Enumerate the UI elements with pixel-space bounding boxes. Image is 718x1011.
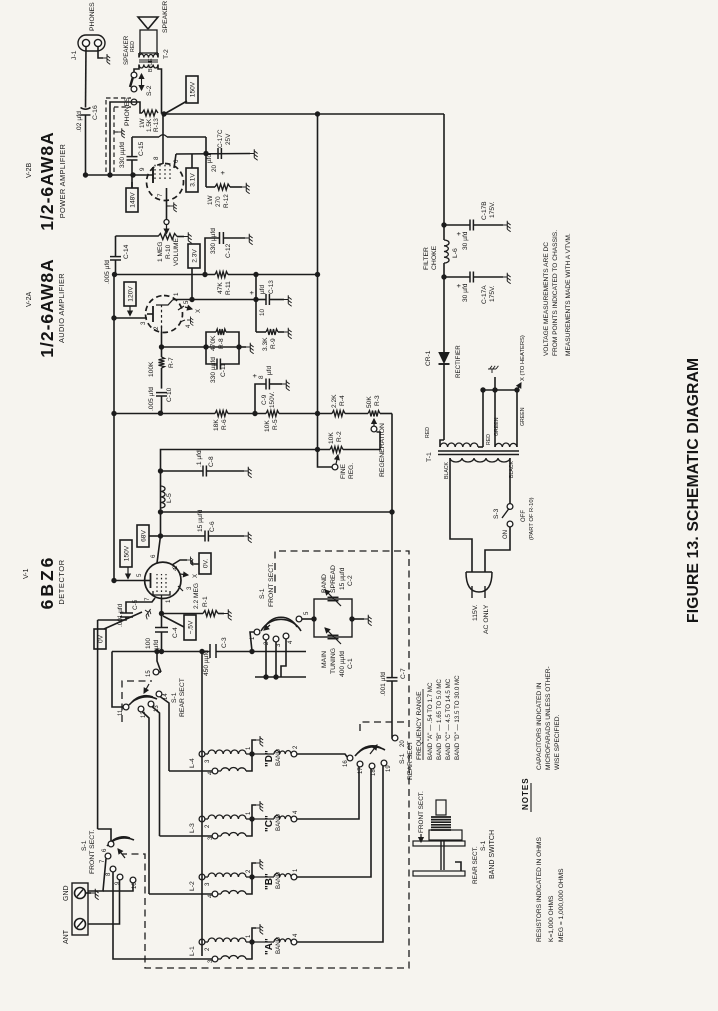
transformer T-1 core: [426, 451, 519, 462]
svg-text:R-8: R-8: [218, 338, 225, 349]
label 148V box: [126, 182, 138, 212]
wire plate feed line: [113, 275, 115, 584]
svg-text:1/2-6AW8A: 1/2-6AW8A: [37, 258, 57, 357]
switch S-1 front2 wafer: [81, 829, 134, 874]
tube V-2B grid lead to wiper: [157, 188, 169, 225]
svg-text:BAND: BAND: [275, 936, 282, 954]
svg-text:C-17A: C-17A: [481, 285, 488, 304]
node feed at R-6 chain: [111, 411, 116, 416]
svg-text:V-2A: V-2A: [26, 291, 33, 307]
wire contact1 to tank: [249, 632, 254, 654]
node C-9 node: [252, 411, 257, 416]
svg-text:115V.: 115V.: [472, 604, 479, 621]
label 150V box detector: [120, 540, 132, 579]
svg-text:C-6: C-6: [209, 521, 216, 532]
capacitor C-10 .005 ufd: [148, 387, 173, 411]
wire contacts feed lines: [255, 639, 306, 680]
tube V-2B screen lead: [153, 114, 163, 164]
wire plate feedback chain C-10 R-7: [161, 347, 163, 413]
switch S-1 rear section wafer: [129, 678, 186, 717]
switch S-1 front section wafer: [259, 562, 301, 631]
capacitor C-7 .001 ufd: [380, 668, 407, 736]
svg-text:17: 17: [358, 767, 364, 774]
svg-text:120V: 120V: [127, 286, 134, 302]
svg-text:BAND "A" — .54 TO 1.7 MC: BAND "A" — .54 TO 1.7 MC: [427, 682, 434, 760]
svg-text:R-10: R-10: [165, 244, 172, 259]
capacitor C-15 330 uufd: [119, 137, 145, 188]
svg-text:3.3K: 3.3K: [262, 337, 269, 351]
transformer T-1 secondary HV: [440, 440, 478, 447]
resistor R-2 10K: [328, 431, 343, 452]
svg-text:19: 19: [386, 765, 392, 772]
svg-text:+: +: [454, 231, 463, 236]
label V-2A header: [26, 258, 66, 357]
note NOTES heading: [521, 777, 531, 812]
wire heater leads: [483, 366, 520, 447]
capacitor C-4 100 uufd: [145, 614, 179, 654]
svg-text:47K: 47K: [217, 282, 224, 294]
potentiometer R-10 1 MEG VOLUME: [116, 225, 192, 266]
svg-text:1: 1: [173, 292, 180, 296]
svg-text:.005 µfd: .005 µfd: [148, 387, 155, 411]
node shielded lead tap: [107, 172, 112, 177]
node mid rail at R-2: [315, 447, 320, 452]
wire grid node to tube: [161, 332, 163, 348]
tube V-2A 1/2-6AW8A triode: [146, 296, 183, 333]
wire shielded lead S-2 to plate line: [110, 102, 137, 175]
svg-text:µfd: µfd: [259, 285, 266, 294]
svg-text:C-8: C-8: [208, 456, 215, 467]
svg-text:C-10: C-10: [166, 387, 173, 402]
svg-text:25V: 25V: [225, 133, 232, 145]
svg-text:400 µµfd: 400 µµfd: [339, 651, 346, 677]
svg-text:L-5: L-5: [166, 493, 173, 503]
svg-text:2.2 MEG: 2.2 MEG: [193, 583, 200, 609]
svg-text:18K: 18K: [213, 419, 220, 431]
svg-text:.001 µfd: .001 µfd: [380, 672, 387, 696]
tube V-2B 1/2-6AW8A: [147, 164, 184, 201]
label 2.3V box: [188, 244, 200, 302]
tube V-2A plate: [114, 306, 153, 325]
tube V-2A grid: [153, 305, 162, 332]
svg-text:C-17C: C-17C: [217, 129, 224, 148]
drawing band switch wafers: [413, 841, 465, 876]
node tank at feed bus: [199, 649, 204, 654]
wire J-1 tip line with C-16: [85, 47, 88, 174]
svg-text:REG.: REG.: [348, 463, 355, 479]
svg-text:"A": "A": [264, 938, 275, 955]
svg-text:3.1V: 3.1V: [189, 173, 196, 187]
node tank top: [159, 649, 164, 654]
svg-text:CHOKE: CHOKE: [431, 245, 438, 270]
svg-text:AC ONLY: AC ONLY: [483, 604, 490, 634]
svg-text:.005 µfd: .005 µfd: [104, 260, 111, 284]
svg-text:.1 µfd: .1 µfd: [196, 450, 203, 467]
capacitor C-5 .001 ufd: [114, 598, 155, 627]
wire grid leak branch: [162, 344, 247, 349]
wire grid feed to front contact 6: [98, 829, 111, 842]
svg-text:RED: RED: [486, 434, 492, 445]
svg-text:TUNING: TUNING: [330, 648, 337, 674]
resistor R-9 3.3K: [256, 300, 292, 352]
resistor R-3 50K regeneration: [366, 395, 381, 416]
wire cathode node line: [176, 151, 250, 156]
svg-text:L-1: L-1: [189, 946, 196, 956]
svg-text:0V: 0V: [97, 634, 104, 643]
svg-text:S-1: S-1: [171, 692, 178, 703]
svg-text:330 µµfd: 330 µµfd: [210, 228, 217, 254]
capacitor C-13 10 ufd: [247, 280, 292, 316]
svg-text:µfd: µfd: [266, 366, 273, 375]
wire ant to contact 9: [88, 880, 120, 924]
svg-text:BAND: BAND: [321, 574, 328, 593]
svg-text:L-2: L-2: [189, 881, 196, 891]
inductor L-6 filter choke: [423, 225, 459, 277]
svg-text:8: 8: [258, 375, 265, 379]
svg-text:REAR SECT: REAR SECT: [407, 741, 414, 780]
note voltage measurements: [543, 230, 572, 356]
svg-text:2: 2: [153, 326, 160, 330]
ground gang: [352, 615, 372, 626]
node bus at C-12: [202, 272, 207, 277]
svg-text:C-3: C-3: [221, 637, 228, 648]
tube V-2B cathode lead: [173, 154, 180, 168]
svg-text:1: 1: [165, 599, 172, 603]
svg-text:K=1,000 OHMS: K=1,000 OHMS: [548, 895, 555, 942]
svg-text:1W: 1W: [207, 194, 214, 205]
svg-text:"D": "D": [264, 750, 275, 767]
capacitor gang box: [311, 599, 354, 637]
resistor R-5 10K: [264, 411, 279, 433]
svg-text:C-14: C-14: [123, 244, 130, 259]
switch S-3 on-off: [493, 497, 535, 540]
svg-text:FIGURE 13. SCHEMATIC DIAGRAM: FIGURE 13. SCHEMATIC DIAGRAM: [685, 358, 702, 623]
note capacitors: [536, 666, 561, 770]
svg-text:OFF: OFF: [521, 510, 527, 522]
svg-text:BAND: BAND: [275, 748, 282, 766]
ground V-2B grid return: [167, 202, 177, 212]
svg-text:20: 20: [211, 164, 218, 172]
svg-text:FREQUENCY RANGE: FREQUENCY RANGE: [416, 691, 423, 760]
svg-text:MAIN: MAIN: [321, 651, 328, 668]
svg-text:−.5V: −.5V: [187, 620, 194, 634]
svg-text:1.5K: 1.5K: [146, 118, 153, 132]
svg-text:C-5: C-5: [132, 599, 139, 610]
svg-text:R-6: R-6: [221, 419, 228, 430]
svg-text:1/2-6AW8A: 1/2-6AW8A: [37, 131, 57, 230]
tube V-1 cathode: [144, 591, 172, 603]
wire C-13 node to bus: [253, 272, 258, 300]
wire V-1 plate lead: [111, 578, 144, 583]
capacitor C-2 band spread: [321, 565, 354, 606]
svg-text:VOLTAGE MEASUREMENTS ARE DC: VOLTAGE MEASUREMENTS ARE DC: [543, 242, 550, 356]
label V-2B header: [26, 131, 67, 230]
svg-text:C-4: C-4: [172, 627, 179, 638]
label FINE REG: [340, 463, 355, 479]
svg-text:BLACK: BLACK: [444, 461, 450, 479]
tube V-1 6BZ6: [145, 562, 181, 598]
resistor R-11 47K: [215, 272, 232, 296]
shield dashed around phones lead: [106, 98, 131, 172]
svg-text:15: 15: [146, 670, 152, 677]
svg-text:18: 18: [371, 769, 377, 776]
switch S-1 front contacts: [250, 611, 310, 647]
capacitor C-17A 30 ufd 175V: [444, 272, 511, 305]
svg-text:C-17B: C-17B: [481, 201, 488, 220]
coil L-5: [161, 486, 174, 508]
svg-text:C-9: C-9: [261, 394, 268, 405]
svg-text:MICROFARADS UNLESS OTHER-: MICROFARADS UNLESS OTHER-: [545, 666, 552, 770]
wire T-2 primary top to S-2: [134, 65, 139, 76]
svg-text:100: 100: [145, 638, 152, 649]
wire regen to rear wiper: [389, 414, 394, 678]
svg-text:10K: 10K: [328, 432, 335, 444]
svg-text:BAND "D" — 13.5 TO 30.0 MC: BAND "D" — 13.5 TO 30.0 MC: [454, 675, 461, 760]
svg-text:BAND: BAND: [275, 871, 282, 889]
resistor R-12 270 1W: [206, 154, 250, 209]
wire phones contact to R-13: [137, 102, 142, 113]
label -.5V box: [163, 615, 196, 640]
svg-text:R-11: R-11: [225, 281, 232, 295]
svg-text:175V.: 175V.: [489, 201, 496, 218]
node plate node: [158, 411, 163, 416]
svg-text:330 µµfd: 330 µµfd: [119, 142, 126, 168]
dashed enclosure tuner: [122, 551, 409, 968]
svg-text:C-1: C-1: [347, 658, 354, 669]
svg-text:3: 3: [140, 321, 147, 325]
node plate node C-15/148V: [130, 172, 135, 177]
svg-text:11: 11: [118, 709, 124, 716]
node C-6 68V junction: [158, 533, 163, 538]
svg-text:6: 6: [150, 554, 157, 558]
tube V-1 pin3 lead: [178, 586, 193, 591]
note resistors: [536, 836, 565, 942]
svg-text:S-2: S-2: [146, 85, 153, 96]
svg-text:R-12: R-12: [223, 194, 230, 208]
wire regen feedback line: [161, 511, 393, 513]
svg-text:REGENERATION: REGENERATION: [379, 423, 386, 477]
svg-text:FINE: FINE: [340, 463, 347, 479]
svg-text:C-16: C-16: [92, 105, 99, 120]
svg-text:BAND "C" — 4.5 TO 14.5 MC: BAND "C" — 4.5 TO 14.5 MC: [445, 678, 452, 760]
diode CR-1 rectifier: [425, 277, 462, 440]
label 0V box pin2: [192, 553, 211, 574]
svg-text:S-1: S-1: [81, 840, 88, 851]
node mid rail joins H1: [315, 111, 320, 116]
svg-text:FRONT SECT.: FRONT SECT.: [89, 829, 96, 874]
wire wiper5 to gang: [302, 618, 315, 620]
svg-text:GND: GND: [63, 885, 70, 901]
wire feed line 12: [142, 712, 149, 895]
note frequency range table: [416, 675, 461, 760]
tube V-2A heater pins: [178, 300, 202, 328]
resistor R-4 2.2K: [331, 394, 346, 417]
wire plate chain: [114, 413, 161, 415]
label band switch: [418, 791, 496, 884]
svg-text:L-4: L-4: [189, 758, 196, 768]
wire wiper15 line: [154, 649, 161, 672]
node choke right: [441, 222, 446, 227]
svg-text:2.2K: 2.2K: [331, 394, 338, 408]
svg-text:BAND SWITCH: BAND SWITCH: [489, 830, 496, 879]
svg-text:R-1: R-1: [202, 596, 209, 607]
label PHONES at S-2: [124, 97, 131, 126]
capacitor C-9 8 ufd 150V: [250, 366, 290, 414]
label 150V box: [166, 76, 198, 113]
node regen line junction: [158, 509, 163, 514]
svg-text:+: +: [247, 290, 256, 295]
title FIGURE 13. SCHEMATIC DIAGRAM: [685, 358, 702, 623]
svg-text:470K: 470K: [210, 335, 217, 351]
svg-text:1 MEG: 1 MEG: [157, 241, 164, 262]
capacitor C-12 330 uufd: [205, 228, 253, 275]
speaker SP: [138, 1, 169, 53]
svg-text:50K: 50K: [366, 396, 373, 408]
wire T-2 secondary to speaker: [139, 53, 158, 58]
wire C-15 top to cathode node: [132, 135, 206, 154]
wire decoupling bus: [115, 274, 318, 276]
wire V-2A cathode to C-13 node: [176, 299, 256, 301]
svg-text:6: 6: [173, 159, 180, 163]
capacitor C-6 15 uufd: [161, 509, 252, 542]
capacitor C-14 .005 ufd: [104, 236, 130, 284]
svg-text:+: +: [218, 170, 227, 175]
svg-text:SPEAKER: SPEAKER: [162, 1, 169, 33]
inductor L-3 band C: [189, 801, 299, 840]
svg-text:ANT: ANT: [63, 929, 70, 944]
capacitor C-8 .1 ufd: [161, 450, 252, 478]
svg-text:X: X: [193, 574, 199, 578]
svg-text:GREEN: GREEN: [494, 417, 500, 436]
wire S-3 to plug: [485, 527, 510, 572]
wire rear2 wiper 20 to C-7 line: [391, 736, 393, 738]
svg-text:S-1: S-1: [259, 588, 266, 599]
svg-text:RESISTORS INDICATED IN OHMS: RESISTORS INDICATED IN OHMS: [536, 836, 543, 942]
svg-text:CR-1: CR-1: [425, 350, 432, 366]
svg-text:MEG = 1,000,000 OHMS: MEG = 1,000,000 OHMS: [558, 868, 565, 942]
svg-text:R-3: R-3: [374, 395, 381, 406]
inductor L-1 band A: [189, 924, 299, 963]
wire R-chain: [161, 413, 393, 415]
wire contact 7 to gnd: [88, 859, 106, 891]
svg-text:7: 7: [157, 193, 164, 197]
transformer T-1 primary: [450, 458, 510, 462]
svg-text:REAR SECT.: REAR SECT.: [472, 846, 479, 884]
svg-text:270: 270: [215, 196, 222, 207]
wire band B lower tap: [149, 893, 212, 895]
svg-text:S-1: S-1: [399, 753, 406, 764]
svg-text:PHONES: PHONES: [89, 2, 96, 31]
transformer T-2: [139, 49, 170, 68]
svg-text:FRONT SECT.: FRONT SECT.: [418, 791, 425, 833]
svg-text:1W: 1W: [139, 117, 146, 128]
capacitor C-16 .02 ufd: [76, 105, 99, 132]
svg-text:10: 10: [259, 308, 266, 316]
capacitor C-1 main tuning: [321, 628, 354, 677]
svg-text:VOLUME: VOLUME: [173, 238, 180, 266]
node choke left: [441, 274, 446, 279]
svg-text:CAPACITORS INDICATED IN: CAPACITORS INDICATED IN: [536, 682, 543, 770]
svg-text:15 µµfd: 15 µµfd: [339, 567, 346, 590]
label 0V box grid: [94, 607, 153, 649]
svg-text:15 µµfd: 15 µµfd: [197, 509, 204, 532]
wire cathode line: [159, 598, 164, 616]
svg-text:330 µµfd: 330 µµfd: [210, 357, 217, 383]
svg-text:30 µfd: 30 µfd: [462, 231, 469, 250]
wire band C lower tap: [160, 835, 213, 837]
svg-text:R-4: R-4: [339, 395, 346, 406]
resistor R-6 18K: [213, 411, 228, 432]
svg-text:C-15: C-15: [138, 141, 145, 156]
svg-text:J-1: J-1: [71, 50, 78, 60]
label V-1 header: [23, 555, 66, 610]
svg-text:L-3: L-3: [189, 823, 196, 833]
svg-text:100K: 100K: [148, 361, 155, 377]
svg-text:6BZ6: 6BZ6: [37, 555, 57, 610]
svg-text:3: 3: [186, 586, 193, 590]
tube V-2B grids: [155, 164, 170, 179]
svg-text:S-3: S-3: [493, 508, 500, 519]
ground GND terminal: [86, 889, 99, 900]
switch S-1 front2 contacts: [100, 841, 138, 889]
svg-text:REAR SECT: REAR SECT: [179, 678, 186, 717]
svg-text:V-1: V-1: [23, 568, 30, 579]
wire grid line to switch: [98, 620, 114, 829]
transformer T-1 heater winding: [495, 443, 517, 447]
wire band A lower tap: [113, 872, 212, 959]
wire primary bottom to S-3: [509, 458, 511, 504]
svg-text:ON: ON: [503, 530, 509, 539]
svg-text:RED: RED: [130, 41, 136, 52]
svg-text:L-6: L-6: [452, 248, 459, 258]
svg-text:20: 20: [400, 740, 406, 747]
svg-text:T-2: T-2: [163, 49, 170, 59]
svg-text:9: 9: [139, 167, 146, 171]
svg-text:8: 8: [153, 156, 160, 160]
capacitor C-17B 30 ufd 175V: [444, 201, 511, 250]
svg-text:V-2B: V-2B: [26, 162, 33, 178]
svg-text:450 µµfd: 450 µµfd: [203, 650, 210, 676]
wire contact 10 to gnd line: [103, 883, 133, 891]
connector 115V plug: [466, 572, 492, 634]
svg-text:7: 7: [144, 597, 151, 601]
svg-text:MEASUREMENTS MADE WITH A V: MEASUREMENTS MADE WITH A VTVM.: [565, 233, 572, 356]
svg-text:C-11: C-11: [220, 363, 227, 377]
wire B+ mid rail: [317, 114, 319, 450]
wire J-1 sleeve to ground: [98, 47, 110, 65]
resistor R-8 470K grid leak box: [206, 329, 239, 351]
capacitor C-11 330 uufd: [206, 347, 239, 383]
switch S-1 rear2 wafer: [355, 741, 414, 780]
switch S-1 rear2 contacts: [343, 735, 406, 776]
svg-text:S-1: S-1: [480, 840, 487, 851]
svg-text:C-2: C-2: [347, 575, 354, 586]
wire feed line 13: [152, 707, 160, 837]
label REGENERATION: [379, 423, 386, 477]
resistor R-7 100K: [148, 357, 175, 377]
wire band B antenna out: [297, 768, 371, 877]
wire band feed bus: [201, 652, 203, 957]
label 3.1V box: [186, 154, 198, 192]
label X TO HEATERS: [517, 335, 526, 390]
tube V-1 grids: [157, 574, 166, 592]
svg-text:"B": "B": [264, 873, 275, 890]
wire band C antenna out: [297, 766, 359, 819]
svg-text:175V.: 175V.: [489, 285, 496, 302]
capacitor C-17C 20 ufd 25V: [206, 129, 258, 175]
svg-text:WISE SPECIFIED.: WISE SPECIFIED.: [554, 715, 561, 770]
node mid rail at bus: [315, 272, 320, 277]
